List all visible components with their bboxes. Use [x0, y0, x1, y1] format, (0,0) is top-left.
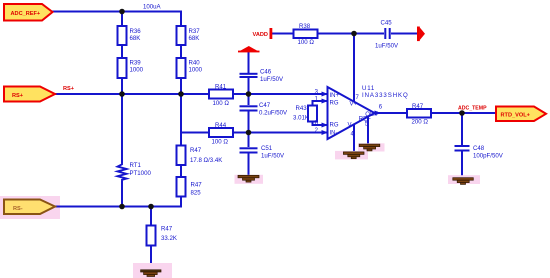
resistor R37 [177, 26, 186, 45]
svg-text:RS-: RS- [13, 206, 23, 212]
wire R46 bottom [180, 197, 182, 208]
svg-text:IN+: IN+ [330, 93, 340, 99]
power symbol arrow right of C45 [417, 27, 420, 42]
svg-text:C51: C51 [261, 145, 273, 152]
op-amp U1 INA333 [328, 87, 375, 139]
svg-text:17.8 Ω/3.4K: 17.8 Ω/3.4K [190, 157, 222, 164]
capacitor C45 [384, 28, 386, 39]
resistor R47 33.2K [147, 226, 156, 246]
junction ADC_TEMP [459, 110, 465, 116]
pin 8 arrow [322, 123, 329, 128]
pin 2 arrow [322, 130, 329, 135]
wire REF pin5 to ground [367, 116, 369, 145]
power port RTD_VOL+ [496, 107, 546, 122]
resistor R45 [177, 146, 186, 166]
wire R38 to C45 [318, 33, 385, 35]
svg-text:V-: V- [348, 122, 354, 128]
resistor R36 [118, 26, 127, 45]
svg-text:R41: R41 [215, 83, 227, 90]
svg-text:R47: R47 [190, 147, 202, 154]
svg-text:1uF/50V: 1uF/50V [261, 152, 285, 159]
svg-text:33.2K: 33.2K [161, 235, 177, 242]
resistor R38 [294, 30, 318, 39]
svg-text:100 Ω: 100 Ω [213, 100, 230, 107]
wire RG pin8 [313, 122, 328, 126]
svg-text:RS+: RS+ [12, 93, 24, 99]
capacitor C48 [455, 145, 470, 147]
svg-text:825: 825 [191, 189, 202, 196]
svg-text:100pF/50V: 100pF/50V [473, 152, 504, 159]
svg-text:RG: RG [330, 122, 339, 128]
wire V- pin4 to ground [353, 124, 355, 153]
resistor R41 [209, 90, 233, 99]
svg-text:C46: C46 [260, 68, 272, 75]
svg-text:R38: R38 [299, 23, 311, 30]
wire C45 to arrow [391, 33, 418, 35]
capacitor C51 [240, 147, 258, 149]
svg-text:100 Ω: 100 Ω [298, 39, 315, 46]
svg-text:100uA: 100uA [143, 4, 162, 11]
svg-text:IN-: IN- [330, 130, 338, 136]
junction cap node C46/C47 [246, 91, 252, 97]
resistor R40 [177, 58, 186, 78]
wire R37-R40 [180, 45, 182, 58]
resistor R44 [209, 128, 233, 137]
wire RT1 bottom [121, 181, 123, 207]
wire RS+ row [55, 93, 209, 95]
wire R40 bottom [180, 78, 182, 94]
wire node to C48 [461, 113, 463, 145]
pin 3 arrow [322, 92, 329, 97]
wire V+ pin7 [353, 34, 355, 103]
svg-text:R47: R47 [191, 181, 203, 188]
power symbol VADD arrow above C46 [238, 46, 260, 52]
power port RS+ [4, 87, 55, 102]
svg-text:R37: R37 [189, 28, 201, 35]
resistor R46 [177, 177, 186, 197]
highlight behind RS- flag [0, 196, 60, 219]
svg-text:200 Ω: 200 Ω [412, 119, 429, 126]
wire R36 top stub [121, 12, 123, 27]
svg-text:1000: 1000 [130, 67, 144, 74]
wire ADC_REF+ top rail [52, 12, 181, 27]
svg-text:C45: C45 [381, 19, 393, 26]
resistor R47 200 [407, 109, 431, 118]
svg-text:1000: 1000 [189, 67, 203, 74]
ground under C51 [235, 175, 264, 184]
capacitor C46 [240, 73, 258, 75]
svg-text:R44: R44 [215, 122, 227, 129]
junction RS- x122 [119, 204, 125, 210]
capacitor C47 [240, 105, 258, 107]
svg-text:0.2uF/50V: 0.2uF/50V [259, 110, 288, 117]
junction VADD/V+ [351, 31, 357, 37]
wire RG pin1 [313, 101, 328, 106]
ground under C48 [448, 175, 480, 184]
svg-text:VADD: VADD [253, 32, 268, 38]
thermistor RT1 [118, 163, 127, 181]
wire R39 bottom [121, 78, 123, 94]
wire C48 to ground [461, 152, 463, 179]
svg-text:RG: RG [330, 100, 339, 106]
junction RS+ x181 [178, 91, 184, 97]
svg-text:68K: 68K [189, 35, 200, 42]
svg-text:REF: REF [359, 116, 371, 122]
svg-text:C48: C48 [473, 145, 485, 152]
svg-text:100 Ω: 100 Ω [212, 138, 229, 145]
junction cap node C47/C51 [246, 130, 252, 136]
svg-text:3.01K: 3.01K [293, 114, 309, 121]
wire R47 top stub [150, 207, 152, 226]
power port RS- (highlighted) [4, 200, 55, 215]
svg-text:RS+: RS+ [63, 86, 75, 92]
junction RS- x151 [148, 204, 154, 210]
svg-text:PT1000: PT1000 [130, 170, 152, 177]
wire OUT to R47 [375, 112, 408, 114]
resistor R43 [308, 106, 317, 122]
svg-text:R47: R47 [412, 103, 424, 110]
svg-text:ADC_REF+: ADC_REF+ [11, 11, 41, 17]
svg-text:R36: R36 [130, 28, 142, 35]
svg-text:INA333SHKQ: INA333SHKQ [362, 92, 409, 99]
svg-text:RT1: RT1 [130, 162, 142, 169]
wire cap column C47-C51 [248, 112, 250, 148]
wire R36-R39 [121, 45, 123, 58]
wire RS- row [55, 206, 182, 208]
ground under V- pin4 [335, 151, 368, 160]
wire column x181 down to R45 [180, 94, 182, 146]
wire C51 to ground [248, 154, 250, 177]
pin 1 arrow [322, 99, 329, 104]
svg-text:1uF/50V: 1uF/50V [375, 42, 399, 49]
wire cap column C46-C47 [248, 52, 250, 73]
svg-text:R40: R40 [189, 59, 201, 66]
svg-text:V+: V+ [350, 101, 358, 107]
svg-text:68K: 68K [130, 35, 141, 42]
wire R47 to RTD_VOL+ [431, 112, 496, 114]
wire R44 row left [181, 132, 209, 134]
svg-text:1uF/50V: 1uF/50V [260, 76, 284, 83]
svg-text:C47: C47 [259, 102, 271, 109]
ground under REF pin5 [358, 143, 385, 151]
wire R44 to IN- [233, 132, 328, 134]
svg-text:U11: U11 [362, 85, 375, 92]
svg-text:R47: R47 [161, 225, 173, 232]
junction at ADC_REF/R36 [119, 9, 125, 15]
svg-text:R43: R43 [296, 105, 308, 112]
power port ADC_REF+ [4, 4, 53, 21]
pin 6 arrow [375, 111, 382, 116]
wire RS+ column to RT1 [121, 94, 123, 163]
resistor R39 [118, 58, 127, 78]
junction RS+ x122 [119, 91, 125, 97]
wire VADD to R38 [272, 33, 294, 35]
svg-text:RTD_VOL+: RTD_VOL+ [501, 113, 531, 119]
svg-text:R39: R39 [130, 59, 142, 66]
wire R47 to ground [150, 246, 152, 271]
ground under R47 33.2K [133, 263, 172, 278]
wire R45-R46 [180, 165, 182, 177]
wire R41 to IN+ [233, 93, 328, 95]
